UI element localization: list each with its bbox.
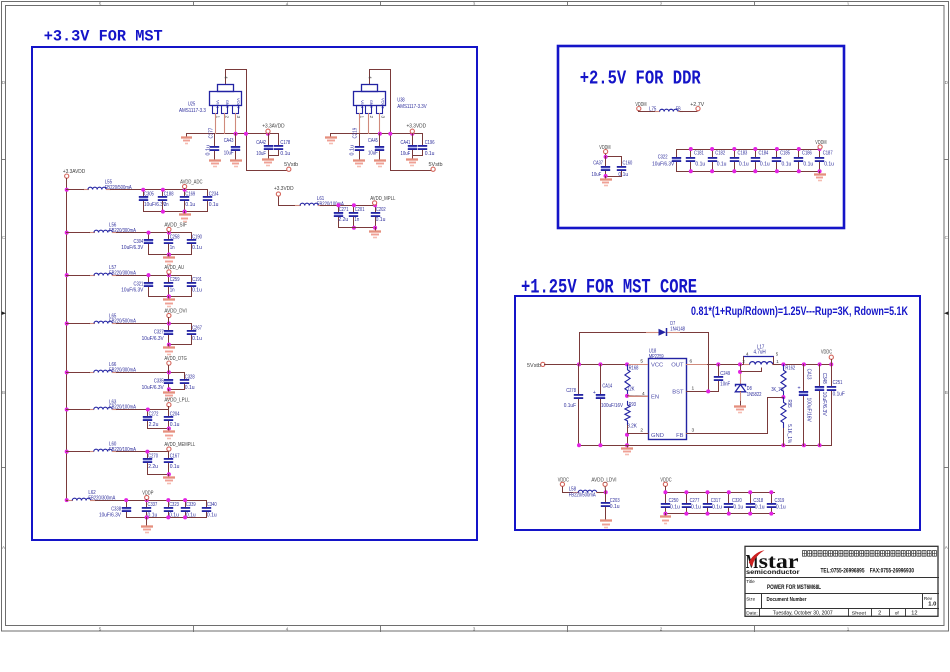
svg-text:0.1u: 0.1u — [610, 504, 620, 510]
wire U18 OUT row — [686, 364, 750, 366]
svg-text:5.1K_1%: 5.1K_1% — [786, 424, 792, 443]
resistor R168 12K — [625, 364, 630, 396]
svg-text:0.1u: 0.1u — [209, 202, 219, 208]
capacitor C318 0.1u — [750, 492, 752, 504]
ground under CA41 — [412, 155, 414, 160]
svg-text:0.1u: 0.1u — [280, 151, 290, 157]
ground AVDD_SIF — [167, 253, 171, 257]
net VDDC terminal (switcher out) — [829, 355, 833, 359]
junction bus at AVDD_SIF — [65, 231, 69, 235]
ground under CA43 — [235, 157, 237, 161]
capacitor C186 0.1u — [798, 149, 800, 158]
svg-text:C178: C178 — [280, 140, 290, 146]
capacitor C320 0.1u — [728, 492, 730, 504]
wire rail AVDD_ADC — [110, 189, 208, 191]
svg-text:4: 4 — [286, 626, 289, 631]
svg-text:1: 1 — [692, 385, 695, 391]
svg-text:3: 3 — [473, 626, 476, 631]
wire +3.3VDD to L61 — [279, 197, 296, 206]
junction dots U25 — [234, 132, 238, 136]
svg-text:C259: C259 — [170, 277, 180, 283]
box +3.3V FOR MST — [32, 47, 477, 540]
svg-text:0.1u: 0.1u — [170, 464, 180, 470]
svg-text:0.1u: 0.1u — [733, 505, 743, 511]
ground D8 — [740, 391, 742, 404]
svg-text:AVDD_OTG: AVDD_OTG — [164, 356, 186, 362]
capacitor C177 0.1u — [214, 133, 216, 147]
capacitor C169 0.1u — [184, 189, 186, 197]
svg-text:C185: C185 — [780, 150, 790, 156]
svg-text:0.1uF: 0.1uF — [564, 403, 577, 409]
svg-text:+2.5V FOR DDR: +2.5V FOR DDR — [580, 68, 701, 90]
svg-text:VDDP: VDDP — [142, 491, 153, 497]
svg-text:GND: GND — [225, 100, 229, 108]
wire VDDM group top — [606, 154, 622, 157]
capacitor C185 0.1u — [776, 149, 778, 158]
svg-text:C258: C258 — [170, 235, 180, 241]
svg-text:C251: C251 — [833, 380, 843, 386]
svg-text:0.1u: 0.1u — [192, 336, 202, 342]
svg-text:C272: C272 — [149, 411, 159, 417]
svg-text:12K: 12K — [627, 386, 635, 392]
svg-text:4.7uH: 4.7uH — [754, 350, 766, 356]
title block column dividers — [761, 593, 763, 609]
svg-text:AMS1117-3.3V: AMS1117-3.3V — [397, 104, 427, 110]
capacitor C338 10uF/6.3V — [126, 500, 128, 508]
net +3.3AVDD terminal — [266, 129, 270, 133]
svg-text:2: 2 — [878, 611, 881, 617]
svg-text:1N5822: 1N5822 — [747, 392, 762, 398]
svg-text:10uF/6.3V: 10uF/6.3V — [142, 336, 164, 342]
U25 package body — [210, 92, 242, 106]
svg-text:Document Number: Document Number — [767, 597, 808, 603]
svg-text:C318: C318 — [753, 498, 763, 504]
svg-text:C340: C340 — [207, 502, 217, 508]
wire rail AVDD_AU — [116, 275, 192, 277]
resistor R95 5.1K_1% — [781, 397, 786, 428]
svg-text:1: 1 — [847, 626, 850, 631]
svg-text:0.1u: 0.1u — [803, 161, 813, 167]
svg-text:C219: C219 — [353, 128, 359, 139]
svg-text:C323: C323 — [169, 502, 179, 508]
net VDDC terminal (LDVI row) — [560, 482, 564, 486]
capacitor C183 0.1u — [734, 149, 736, 158]
capacitor C328 0.1u — [184, 372, 186, 380]
svg-text:FB: FB — [676, 433, 684, 439]
svg-text:C169: C169 — [185, 192, 195, 198]
svg-text:2.2u: 2.2u — [148, 464, 158, 470]
capacitor C201 1n — [353, 205, 355, 213]
capacitor CA37 10uF — [605, 156, 607, 167]
svg-text:12: 12 — [911, 611, 917, 617]
svg-text:0.1u: 0.1u — [192, 245, 202, 251]
capacitor C327 10uF/6.3V — [168, 323, 170, 331]
capacitor C259 1n — [168, 275, 170, 283]
inductor L62 FB220/300mA — [67, 500, 73, 502]
svg-text:0.1u: 0.1u — [350, 145, 356, 156]
svg-text:2.2u: 2.2u — [338, 217, 348, 223]
inductor L65 FB220/500mA — [89, 323, 95, 325]
capacitor CA13 100uF/16V — [803, 364, 805, 392]
resistor R162 3K_1% — [781, 364, 786, 397]
svg-text:0.1uF: 0.1uF — [833, 391, 846, 397]
svg-text:AVDD_MPLL: AVDD_MPLL — [370, 196, 395, 202]
svg-text:C278: C278 — [566, 388, 576, 394]
svg-text:+3.3V FOR MST: +3.3V FOR MST — [44, 28, 163, 46]
svg-text:+2.7V: +2.7V — [690, 102, 704, 108]
ground AVDD_DVI — [167, 343, 171, 347]
svg-text:C322: C322 — [658, 155, 668, 161]
svg-text:10uF/6.3V: 10uF/6.3V — [99, 513, 121, 519]
capacitor C335 10uF/6.3V — [168, 372, 170, 380]
svg-text:C167: C167 — [170, 454, 180, 460]
diode D7 1N4148 — [646, 332, 659, 334]
junction bus at AVDD_LPLL — [65, 408, 69, 412]
capacitor CA42 10uF — [268, 133, 270, 146]
svg-text:5: 5 — [99, 626, 102, 631]
net +2.7V terminal — [696, 107, 700, 111]
title block outer border — [745, 546, 938, 616]
svg-text:5Vstb: 5Vstb — [527, 363, 541, 369]
svg-text:C204: C204 — [170, 411, 180, 417]
ground AVDD_AU — [167, 295, 171, 299]
svg-text:10uF: 10uF — [368, 151, 378, 157]
junction bus at AVDD_MEMPLL — [65, 450, 69, 454]
U18 pin stubs salmon — [628, 364, 648, 366]
capacitor C304 10uF/6.3V — [148, 232, 150, 240]
svg-text:U25: U25 — [188, 102, 195, 108]
svg-text:Sheet: Sheet — [852, 610, 867, 616]
svg-text:C321: C321 — [134, 281, 144, 287]
net +3.3AVDD terminal — [65, 174, 69, 178]
svg-text:0.1u: 0.1u — [148, 513, 158, 519]
svg-text:VDDM: VDDM — [599, 145, 611, 151]
svg-text:C250: C250 — [669, 498, 679, 504]
svg-text:C317: C317 — [711, 498, 721, 504]
ground under CA45 — [379, 157, 381, 161]
svg-text:C305: C305 — [144, 192, 154, 198]
ground AVDD_MPLL — [373, 226, 377, 230]
svg-text:CA37: CA37 — [593, 161, 603, 167]
svg-text:0.1u: 0.1u — [205, 145, 211, 156]
inductor L57 FB220/300mA — [89, 275, 95, 277]
box +2.5V FOR DDR — [558, 46, 844, 228]
svg-text:5: 5 — [99, 1, 102, 6]
svg-text:10uF: 10uF — [224, 151, 234, 157]
wire rail AVDD_LPLL — [116, 409, 169, 411]
U38 pin leads — [359, 113, 361, 134]
svg-text:C187: C187 — [823, 150, 833, 156]
inductor L17 4.7uH — [744, 364, 750, 366]
capacitor C272 2.2u — [147, 409, 149, 417]
svg-text:2: 2 — [640, 427, 643, 433]
svg-text:VDDC: VDDC — [821, 349, 832, 355]
ground left of U25 — [186, 133, 188, 138]
svg-text:6: 6 — [690, 358, 693, 364]
svg-text:5: 5 — [640, 358, 643, 364]
svg-text:+3.3AVDD: +3.3AVDD — [262, 124, 284, 130]
svg-text:100uF/16V: 100uF/16V — [601, 403, 623, 409]
net 5Vstb terminal U38 — [431, 167, 435, 171]
svg-text:10uF: 10uF — [401, 151, 411, 157]
wire rail AVDD_DVI — [116, 323, 192, 325]
svg-text:Tuesday, October 30, 2007: Tuesday, October 30, 2007 — [773, 611, 833, 617]
inductor L60 FB220/100mA — [89, 451, 94, 453]
inductor L58 FB220/500mA — [573, 492, 579, 494]
ground VDDM group — [605, 176, 607, 180]
svg-text:C186: C186 — [802, 150, 812, 156]
capacitor C188 1n — [162, 189, 164, 197]
svg-text:+3.3VDD: +3.3VDD — [274, 186, 294, 192]
capacitor C323 0.1u — [168, 500, 170, 508]
ground left of U38 — [330, 133, 332, 138]
svg-text:C328: C328 — [185, 374, 195, 380]
svg-text:CA13: CA13 — [805, 369, 811, 380]
capacitor C340 0.1u — [206, 500, 208, 508]
net +3.3VDD terminal — [410, 129, 414, 133]
net AVDD_MPLL terminal — [373, 201, 377, 205]
capacitor CA45 10uF — [379, 133, 381, 147]
svg-text:of: of — [895, 610, 900, 616]
svg-text:EN: EN — [651, 395, 659, 401]
net AVDD_LPLL terminal — [167, 403, 171, 407]
svg-text:1n: 1n — [164, 202, 169, 208]
svg-text:0.1u: 0.1u — [185, 385, 195, 391]
junction dots U38 — [378, 132, 382, 136]
ground U18 — [625, 443, 629, 447]
U25 pin leads — [215, 113, 217, 134]
ground C203 — [605, 517, 607, 521]
capacitor C202 0.1u — [375, 205, 377, 213]
svg-text:0.1u: 0.1u — [425, 151, 435, 157]
svg-text:AVDD_SIF: AVDD_SIF — [164, 222, 187, 228]
svg-text:AVDD_MEMPLL: AVDD_MEMPLL — [164, 442, 195, 448]
svg-text:0.1u: 0.1u — [207, 513, 217, 519]
svg-text:C249: C249 — [720, 371, 730, 377]
svg-text:1n: 1n — [170, 288, 175, 294]
svg-text:GND: GND — [369, 100, 373, 108]
wire U18 BST — [686, 391, 719, 393]
svg-text:0.1u: 0.1u — [192, 288, 202, 294]
svg-text:GND: GND — [651, 433, 664, 439]
title block row dividers — [745, 577, 939, 579]
net AVDD_ADC terminal — [183, 184, 187, 188]
svg-text:B: B — [945, 390, 948, 395]
ground VDDP — [145, 515, 149, 519]
capacitor C337 0.1u — [146, 500, 148, 508]
wire VDDC to L58 — [563, 487, 574, 493]
ground under C219 — [359, 157, 361, 161]
svg-text:BST: BST — [672, 390, 684, 396]
svg-text:0.1u: 0.1u — [186, 513, 196, 519]
ground under CA42 — [268, 155, 270, 160]
svg-text:C182: C182 — [715, 150, 725, 156]
svg-text:0.1u: 0.1u — [691, 505, 701, 511]
capacitor C196 0.1u — [422, 133, 424, 146]
svg-text:AMS1117-3.3: AMS1117-3.3 — [179, 108, 206, 114]
svg-text:10uF/6.3V: 10uF/6.3V — [121, 245, 143, 251]
svg-text:0.1u: 0.1u — [739, 161, 749, 167]
svg-text:C183: C183 — [738, 150, 748, 156]
svg-text:C277: C277 — [690, 498, 700, 504]
wire 5Vstb to U18 VCC — [544, 364, 649, 366]
svg-text:VDDC: VDDC — [660, 477, 671, 483]
output row wire U38 — [330, 133, 423, 135]
svg-text:Size: Size — [746, 596, 755, 601]
svg-text:R162: R162 — [785, 365, 795, 371]
svg-text:C234: C234 — [209, 192, 219, 198]
svg-text:5Vstb: 5Vstb — [284, 162, 298, 168]
ground AVDD_OTG — [167, 387, 171, 391]
ground under C177 — [214, 157, 216, 161]
svg-text:AVDD_LPLL: AVDD_LPLL — [164, 398, 189, 404]
junction bus at AVDD_AU — [65, 273, 69, 277]
svg-text:VIN: VIN — [216, 100, 220, 109]
junction bus at VDDP — [65, 498, 69, 502]
svg-text:10nF: 10nF — [720, 381, 730, 387]
svg-text:C188: C188 — [164, 192, 174, 198]
svg-text:C337: C337 — [148, 502, 158, 508]
svg-text:3: 3 — [473, 1, 476, 6]
svg-text:R168: R168 — [629, 365, 639, 371]
capacitor C182 0.1u — [712, 149, 714, 158]
inductor L75 FB — [655, 111, 660, 113]
capacitor C305 10uF/6.3V — [143, 189, 145, 197]
svg-text:CA45: CA45 — [368, 138, 378, 144]
IC U18 MP2259 — [649, 359, 687, 440]
ground AVDD_ADC — [183, 210, 187, 214]
svg-text:2: 2 — [660, 1, 663, 6]
svg-text:CA41: CA41 — [401, 140, 411, 146]
svg-text:2: 2 — [660, 626, 663, 631]
svg-text:C339: C339 — [186, 502, 196, 508]
wire rail VDDP — [95, 500, 207, 502]
box +1.25V FOR MST CORE — [515, 296, 920, 530]
wire EN — [625, 394, 629, 398]
capacitor C277 0.1u — [686, 492, 688, 504]
U38 package body — [354, 92, 386, 106]
svg-text:0.1u: 0.1u — [170, 422, 180, 428]
capacitor C339 0.1u — [185, 500, 187, 508]
inductor L61 FB220/100mA — [295, 205, 301, 207]
wire DDR cap bank rails — [676, 149, 821, 151]
wire MPLL bottom rail — [338, 227, 376, 229]
svg-text:+3.3VDD: +3.3VDD — [407, 124, 427, 130]
wire U25 tab to input — [226, 70, 247, 171]
svg-text:1n: 1n — [170, 245, 175, 251]
inductor L55 FB220/500mA — [83, 189, 89, 191]
svg-text:10uF: 10uF — [592, 172, 602, 178]
wire U38 tab to input — [370, 70, 391, 171]
frame alignment arrow left — [2, 311, 7, 315]
frame zone ticks sides — [1, 159, 6, 161]
capacitor C190 0.1u — [191, 232, 193, 240]
Mstar logo red swoosh — [749, 550, 765, 567]
svg-text:C160: C160 — [623, 161, 633, 167]
resistor R93 8.2K — [625, 401, 630, 425]
svg-text:8.2K: 8.2K — [627, 424, 637, 430]
net AVDD_MEMPLL terminal — [167, 447, 171, 451]
svg-text:R95: R95 — [786, 400, 792, 408]
svg-text:1N4148: 1N4148 — [670, 326, 685, 332]
capacitor C251 0.1uF — [831, 364, 833, 387]
ground AVDD_MEMPLL — [167, 472, 171, 476]
svg-text:C304: C304 — [134, 239, 144, 245]
svg-text:B: B — [2, 390, 5, 395]
svg-text:C177: C177 — [208, 128, 214, 139]
svg-text:4: 4 — [286, 1, 289, 6]
svg-text:POWER FOR MST6M68L: POWER FOR MST6M68L — [767, 584, 821, 591]
svg-text:+3.3AVDD: +3.3AVDD — [63, 169, 85, 175]
capacitor C348 10uF/6.3V — [819, 364, 821, 387]
svg-text:FB220/500mA: FB220/500mA — [569, 492, 596, 498]
svg-text:0.1u: 0.1u — [376, 217, 386, 223]
svg-text:10uF/6.3V: 10uF/6.3V — [142, 385, 164, 391]
wire cap bottoms U38 — [412, 155, 423, 157]
svg-text:TEL:0755-26996895 FAX:0755-: TEL:0755-26996895 FAX:0755-26996930 — [821, 567, 915, 574]
wire L75 to +2.7V — [680, 111, 699, 112]
svg-text:C270: C270 — [148, 454, 158, 460]
wire rail AVDD_OTG — [116, 372, 185, 374]
svg-text:0.1u: 0.1u — [776, 505, 786, 511]
capacitor C234 0.1u — [207, 189, 209, 197]
chinese address line (glyph boxes) — [803, 551, 807, 557]
capacitor C160 0.1u — [621, 156, 623, 167]
svg-text:CA14: CA14 — [602, 384, 612, 390]
svg-text:3: 3 — [692, 427, 695, 433]
net 5Vstb terminal — [541, 362, 545, 366]
wire FB to divider — [781, 395, 785, 399]
capacitor C249 10nF — [718, 364, 720, 377]
capacitor C271 2.2u — [338, 205, 340, 213]
svg-text:VOUT: VOUT — [236, 98, 240, 110]
U25 pin boxes — [213, 106, 218, 114]
svg-text:C190: C190 — [192, 235, 202, 241]
capacitor C321 10uF/6.3V — [148, 275, 150, 283]
wire U18 GND — [628, 433, 649, 435]
net VDDM terminal (top) — [637, 107, 641, 111]
svg-text:C267: C267 — [192, 325, 202, 331]
capacitor C181 0.1u — [690, 149, 692, 158]
svg-text:AVDD_DVI: AVDD_DVI — [164, 309, 186, 315]
svg-text:0.81*(1+Rup/Rdown)=1.25V---Rup: 0.81*(1+Rup/Rdown)=1.25V---Rup=3K, Rdown… — [691, 306, 909, 318]
svg-text:MP2259: MP2259 — [649, 354, 664, 360]
svg-text:AVDD_AU: AVDD_AU — [164, 265, 184, 271]
ground AVDD_LPLL — [167, 427, 171, 431]
svg-text:+: + — [593, 390, 596, 396]
svg-text:1n: 1n — [354, 217, 359, 223]
net AVDD_SIF terminal — [167, 227, 171, 231]
svg-text:0.1u: 0.1u — [695, 161, 705, 167]
svg-text:C191: C191 — [192, 277, 202, 283]
capacitor C219 0.1u — [359, 133, 361, 147]
net VDDM terminal (right) — [818, 145, 822, 149]
capacitor C167 0.1u — [168, 451, 170, 459]
svg-text:1: 1 — [847, 1, 850, 6]
svg-text:C319: C319 — [775, 498, 785, 504]
output row wire U25 — [186, 133, 279, 135]
wire rail AVDD_SIF — [116, 232, 192, 234]
svg-text:CA42: CA42 — [256, 140, 266, 146]
net +3.3VDD terminal — [276, 192, 280, 196]
ground DDR cap bank — [818, 169, 822, 173]
svg-text:AVDD_ADC: AVDD_ADC — [180, 180, 202, 186]
svg-text:semiconductor: semiconductor — [746, 569, 800, 576]
svg-text:C335: C335 — [154, 379, 164, 385]
net VDDP terminal — [145, 495, 149, 499]
svg-text:VCC: VCC — [651, 363, 663, 369]
svg-text:C181: C181 — [694, 150, 704, 156]
